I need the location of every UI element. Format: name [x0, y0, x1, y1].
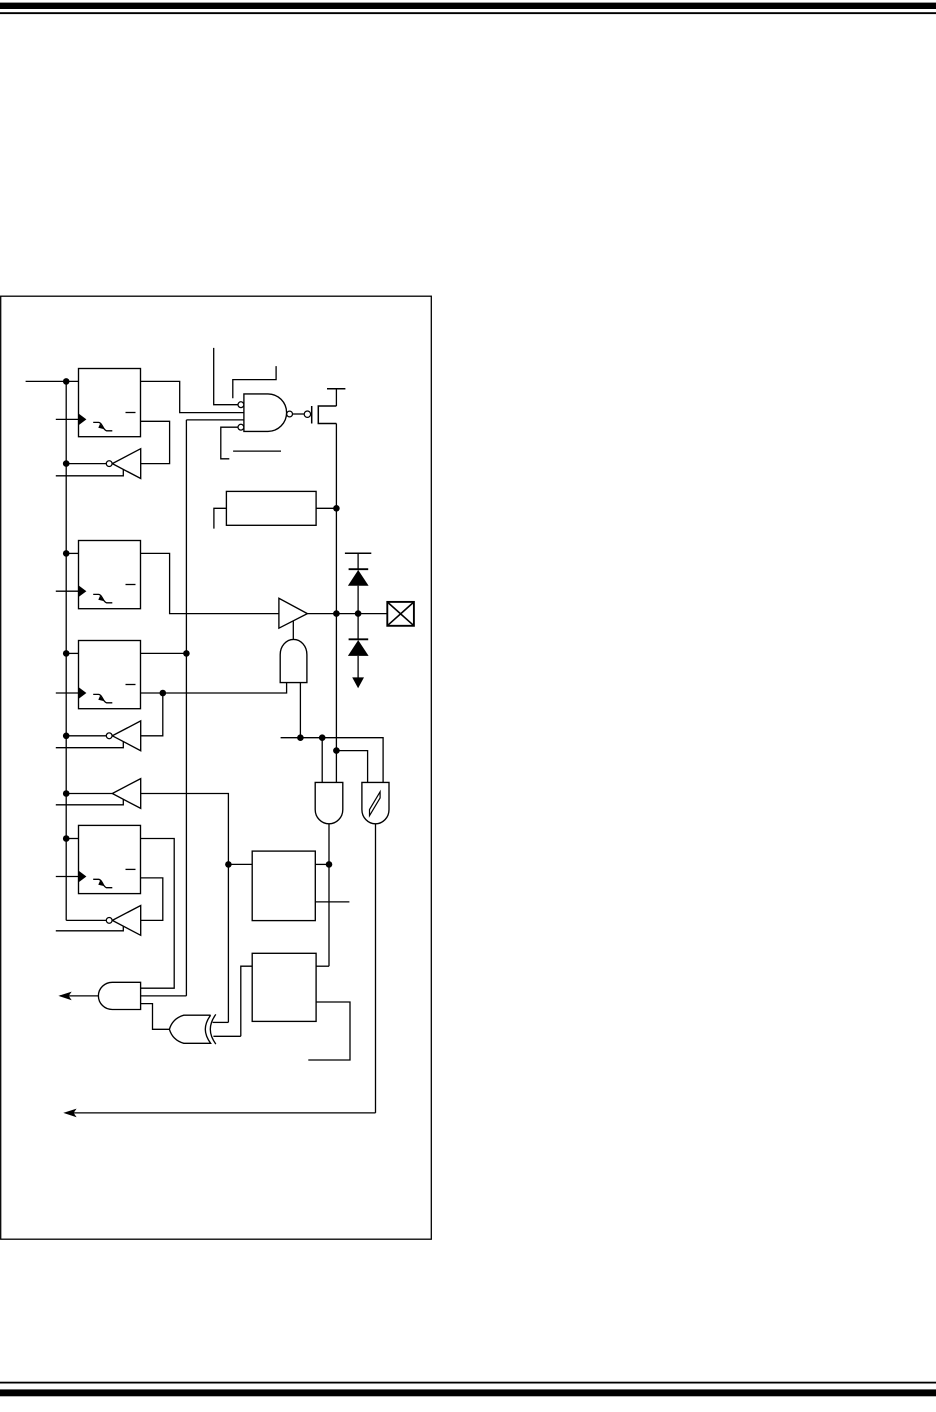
- wire left vertical bus: [65, 381, 67, 920]
- flip-flop FF2 box: [79, 541, 141, 609]
- wire PMOS source up to VDD: [335, 389, 337, 406]
- wire D1 anode to pad line: [357, 586, 359, 614]
- inverter N2 (under FF3) triangle: [112, 721, 140, 751]
- wire G3 output into box2 right: [316, 965, 329, 967]
- node bus junction inverter N1 output: [63, 460, 70, 467]
- wire FF2 clock stub: [56, 590, 79, 592]
- wire FF1 Q to NAND input 2: [141, 381, 244, 412]
- wire pull-up enable vertical bus: [185, 420, 187, 996]
- AND G3 body (points down): [315, 782, 343, 823]
- inverter N3 (under FF4) bubble: [106, 918, 112, 924]
- figure frame: [1, 296, 432, 1239]
- node FF3 Q / vertical bus junction: [183, 650, 190, 657]
- wire inverter N2 (under FF3) output to bus: [66, 735, 106, 737]
- wire FF4 lower output to inverter N3: [141, 878, 163, 921]
- wire resistor left stub: [214, 508, 227, 528]
- wire bus to FF3 input: [66, 652, 78, 654]
- wire FF1 lower output to inverter N1: [141, 421, 170, 463]
- arrow input signal left arrowhead: [63, 1109, 76, 1118]
- buffer B1 (read buffer) triangle: [112, 779, 140, 809]
- diode D2 cathode bar: [349, 638, 369, 640]
- wire inverter N1 lower input line: [56, 469, 124, 475]
- wire input signal to internal bus (bottom): [70, 1112, 376, 1114]
- wire G3 output down to box1: [328, 824, 330, 966]
- wire FF4 Q down to AND G2 top input: [141, 839, 175, 989]
- node bus junction FF3 input: [63, 650, 70, 657]
- wire box2 left elbow to XOR input2: [241, 966, 252, 1036]
- wire buffer B1 (read buffer) output to bus: [66, 793, 112, 795]
- node B1 input bus / box1 junction: [225, 861, 232, 868]
- arrow G2 output arrowhead: [58, 992, 71, 1001]
- PMOS Q1 gate bar: [311, 406, 313, 424]
- wire NAND input3 from enable bus: [186, 419, 244, 421]
- flip-flop FF4 box: [79, 825, 141, 893]
- inverter N1 (under FF1) triangle: [112, 449, 140, 479]
- wire XOR output elbow to AND G2: [141, 1004, 170, 1030]
- node FF3 lower output junction: [160, 690, 167, 697]
- wire FF3 Q to pull-up enable bus: [141, 652, 187, 654]
- node pad line / diode column junction: [355, 610, 362, 617]
- ground VSS arrow: [352, 677, 364, 688]
- wire bus to FF2 input: [66, 552, 78, 554]
- wire label underline stub: [233, 450, 281, 452]
- diode D2 (to VSS): [348, 640, 369, 656]
- wire inverter N3 lower input line: [56, 926, 124, 931]
- inverter N1 (under FF1) bubble: [106, 461, 112, 467]
- node bus junction FF2 input: [63, 550, 70, 557]
- NAND U1 body: [244, 394, 287, 432]
- box1 (input synchronizer): [252, 851, 315, 921]
- diode D1 cathode bar: [349, 568, 369, 570]
- pad terminal X: [388, 603, 413, 626]
- flip-flop FF4 delay squiggle: [93, 879, 112, 887]
- wire FF1 clock stub: [56, 418, 79, 420]
- flip-flop FF1 delay squiggle: [93, 422, 112, 430]
- wire NAND input1 stub up: [214, 348, 238, 405]
- node bus junction FF4 input: [63, 835, 70, 842]
- box2 (timer input block): [252, 953, 316, 1021]
- wire mode-control step stub: [233, 366, 276, 398]
- resistor R1 (pull-up) box: [226, 491, 316, 525]
- diode D1 (to VDD): [348, 570, 369, 586]
- power VDD tick over diode D1: [345, 552, 371, 554]
- node G1 right input junction: [297, 734, 304, 741]
- wire PMOS drain vertical bus: [335, 424, 337, 783]
- wire buffer enable from AND G1: [292, 621, 294, 639]
- wire G4 output down: [375, 824, 377, 1113]
- wire NAND input4 stub: [221, 427, 238, 459]
- AND G2 body (points left): [98, 982, 140, 1009]
- inverter N3 (under FF4) triangle: [112, 906, 140, 936]
- page bottom thick rule: [0, 1389, 936, 1396]
- NAND U1 output bubble: [287, 411, 293, 417]
- input gate G4 body (points down): [362, 782, 389, 823]
- flip-flop FF3 box: [79, 641, 141, 709]
- wire resistor to drain bus: [316, 507, 336, 509]
- wire buffer B1 lower input line: [56, 799, 124, 805]
- node mode net / AND G3 left input junction: [319, 734, 326, 741]
- inverter N2 (under FF3) bubble: [106, 733, 112, 739]
- wire inverter N2 lower input line: [56, 742, 124, 748]
- wire FF4 clock stub: [56, 876, 79, 878]
- flip-flop FF1 box: [79, 369, 141, 437]
- node bus junction inverter N2 output: [63, 733, 70, 740]
- wire G2 output to internal bus: [60, 995, 98, 997]
- page top thin rule: [0, 12, 936, 14]
- wire internal data bus input to FF1: [26, 380, 79, 382]
- XOR G5 extra input arc: [210, 1014, 216, 1044]
- wire XOR input1 from B1 bus: [213, 1021, 229, 1023]
- wire junction down to inverter N2 input: [141, 693, 163, 736]
- flip-flop FF4 clock edge triangle: [79, 871, 87, 882]
- wire pad line to D2 cathode: [357, 614, 359, 641]
- wire inverter N1 (under FF1) output to bus: [66, 463, 106, 465]
- flip-flop FF2 clock edge triangle: [79, 586, 87, 597]
- wire inverter N3 (under FF4) output to bus: [66, 919, 106, 921]
- wire box1 right stub: [315, 901, 349, 903]
- flip-flop FF4 Q-bar overbar dash: [126, 868, 136, 870]
- wire VDD to D1 cathode: [357, 553, 359, 570]
- wire FF2 Q to output buffer input: [141, 553, 279, 613]
- power VDD tick over PMOS: [327, 388, 345, 390]
- node data-bus junction at FF1: [63, 378, 70, 385]
- wire AND G1 right input down: [299, 683, 301, 738]
- node drain bus / pad line junction: [333, 610, 340, 617]
- flip-flop FF1 clock edge triangle: [79, 414, 87, 425]
- flip-flop FF2 Q-bar overbar dash: [126, 584, 136, 586]
- wire FF3 lower output to AND G1 left input: [141, 683, 287, 693]
- wire XOR input2 from box2: [213, 1035, 240, 1037]
- wire G2 middle input to enable bus: [141, 995, 187, 997]
- node G3 output / box1 junction: [326, 861, 333, 868]
- page top thick rule: [0, 3, 936, 9]
- node bus junction buffer B1 output: [63, 790, 70, 797]
- tri-state output buffer B2 triangle: [279, 598, 308, 628]
- wire junction to box1 left: [228, 863, 252, 865]
- PMOS Q1 gate bubble: [304, 411, 310, 417]
- wire box2 right stub elbow: [308, 1002, 350, 1060]
- wire mode net horizontal: [281, 738, 384, 783]
- AND G1 body (points up): [280, 639, 307, 682]
- NAND U1 input bubble pin1: [238, 402, 244, 408]
- page bottom thin rule: [0, 1382, 936, 1384]
- wire bus to FF4 input: [66, 838, 78, 840]
- node drain bus branch junction: [333, 747, 340, 754]
- NAND U1 input bubble pin4: [238, 424, 244, 430]
- wire FF3 clock stub: [56, 692, 79, 694]
- G4 hysteresis glyph: [370, 792, 381, 816]
- PMOS Q1 channel bracket: [318, 406, 336, 424]
- wire drain-bus branch to schmitt left input: [336, 751, 367, 783]
- wire G3 left input down: [321, 738, 323, 783]
- wire NAND output to PMOS gate: [293, 413, 305, 415]
- wire D2 anode to VSS: [357, 656, 359, 679]
- wire buffer output to pad: [307, 613, 387, 615]
- flip-flop FF3 delay squiggle: [93, 694, 112, 702]
- flip-flop FF3 Q-bar overbar dash: [126, 684, 136, 686]
- XOR G5 body (points left): [169, 1015, 210, 1043]
- pad terminal box: [387, 602, 414, 626]
- flip-flop FF1 Q-bar overbar dash: [126, 412, 136, 414]
- flip-flop FF2 delay squiggle: [93, 594, 112, 602]
- node drain bus / resistor junction: [333, 505, 340, 512]
- wire box1 right to G3 output: [315, 863, 329, 865]
- wire buffer B1 input from right: [141, 794, 229, 1023]
- flip-flop FF3 clock edge triangle: [79, 687, 87, 698]
